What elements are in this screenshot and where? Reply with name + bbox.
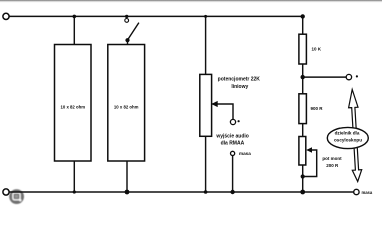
top edge shadow xyxy=(0,0,382,3)
wire masa terminal lead xyxy=(232,156,234,193)
pot mont 200R body xyxy=(299,137,306,166)
svg-text:900 R: 900 R xyxy=(311,106,324,111)
node dot 10K/900R tap xyxy=(301,75,305,79)
wire 900R to pot200 xyxy=(302,124,304,137)
switch S1 xyxy=(125,19,129,23)
svg-text:wyjście audio: wyjście audio xyxy=(215,133,249,139)
svg-text:potencjometr 22K: potencjometr 22K xyxy=(218,76,261,82)
wire box2 bottom lead xyxy=(126,161,128,192)
resistor 10K xyxy=(299,34,307,64)
wiper arrowhead 200R xyxy=(306,147,312,153)
wire switch to box2 lead xyxy=(127,40,129,45)
terminal wyjscie audio xyxy=(230,119,235,124)
svg-text:masa: masa xyxy=(362,190,373,195)
wire pot200 wiper loop xyxy=(303,150,317,177)
wire pot200 bottom lead xyxy=(302,165,304,192)
star mark xyxy=(356,75,358,77)
svg-text:dzielnik dla: dzielnik dla xyxy=(335,130,360,135)
resistor bank R2 10x82ohm xyxy=(108,45,145,162)
svg-text:pot mont: pot mont xyxy=(322,156,342,161)
wire top bus xyxy=(9,15,302,17)
svg-text:10 x 82 ohm: 10 x 82 ohm xyxy=(114,104,139,109)
star mark xyxy=(238,120,240,122)
double arrow dzielnik xyxy=(349,90,362,182)
resistor bank R1 10x82ohm xyxy=(55,45,92,162)
node dots bottom bus xyxy=(73,190,76,193)
terminal input bottom xyxy=(3,189,9,195)
svg-text:liniowy: liniowy xyxy=(231,84,248,90)
svg-text:10 K: 10 K xyxy=(312,47,322,52)
terminal masa (center) xyxy=(231,151,235,155)
wire 10K to 900R with tap branch xyxy=(302,64,304,94)
svg-text:10 x 82 ohm: 10 x 82 ohm xyxy=(60,104,85,109)
terminal masa right xyxy=(354,189,359,194)
wire box1 bottom lead xyxy=(73,161,75,192)
wire box1 top lead xyxy=(73,16,75,44)
wire right column drop to 10K xyxy=(302,16,304,34)
wire tap branch to scope output xyxy=(303,76,347,78)
terminal input top xyxy=(3,13,9,19)
ellipse dzielnik dla oscyloskopu xyxy=(327,127,368,148)
svg-text:200 R: 200 R xyxy=(326,163,339,168)
resistor 900R xyxy=(299,94,307,124)
wire pot22K top lead xyxy=(205,16,207,74)
svg-text:oscyloskopu: oscyloskopu xyxy=(334,138,362,143)
node dots top bus xyxy=(73,15,77,19)
watermark logo bottom-left xyxy=(9,189,24,204)
wire pot22K bottom lead xyxy=(205,136,207,192)
terminal scope output xyxy=(346,74,351,79)
wire 22K wiper to output xyxy=(213,104,234,119)
wiper arrowhead 22K xyxy=(211,101,217,107)
svg-text:masa: masa xyxy=(239,151,251,156)
node dot pot200 wiper join xyxy=(301,174,305,178)
potentiometer 22K body xyxy=(200,74,212,136)
wire bottom bus (masa) xyxy=(9,191,353,193)
svg-text:dla RMAA: dla RMAA xyxy=(221,140,245,146)
